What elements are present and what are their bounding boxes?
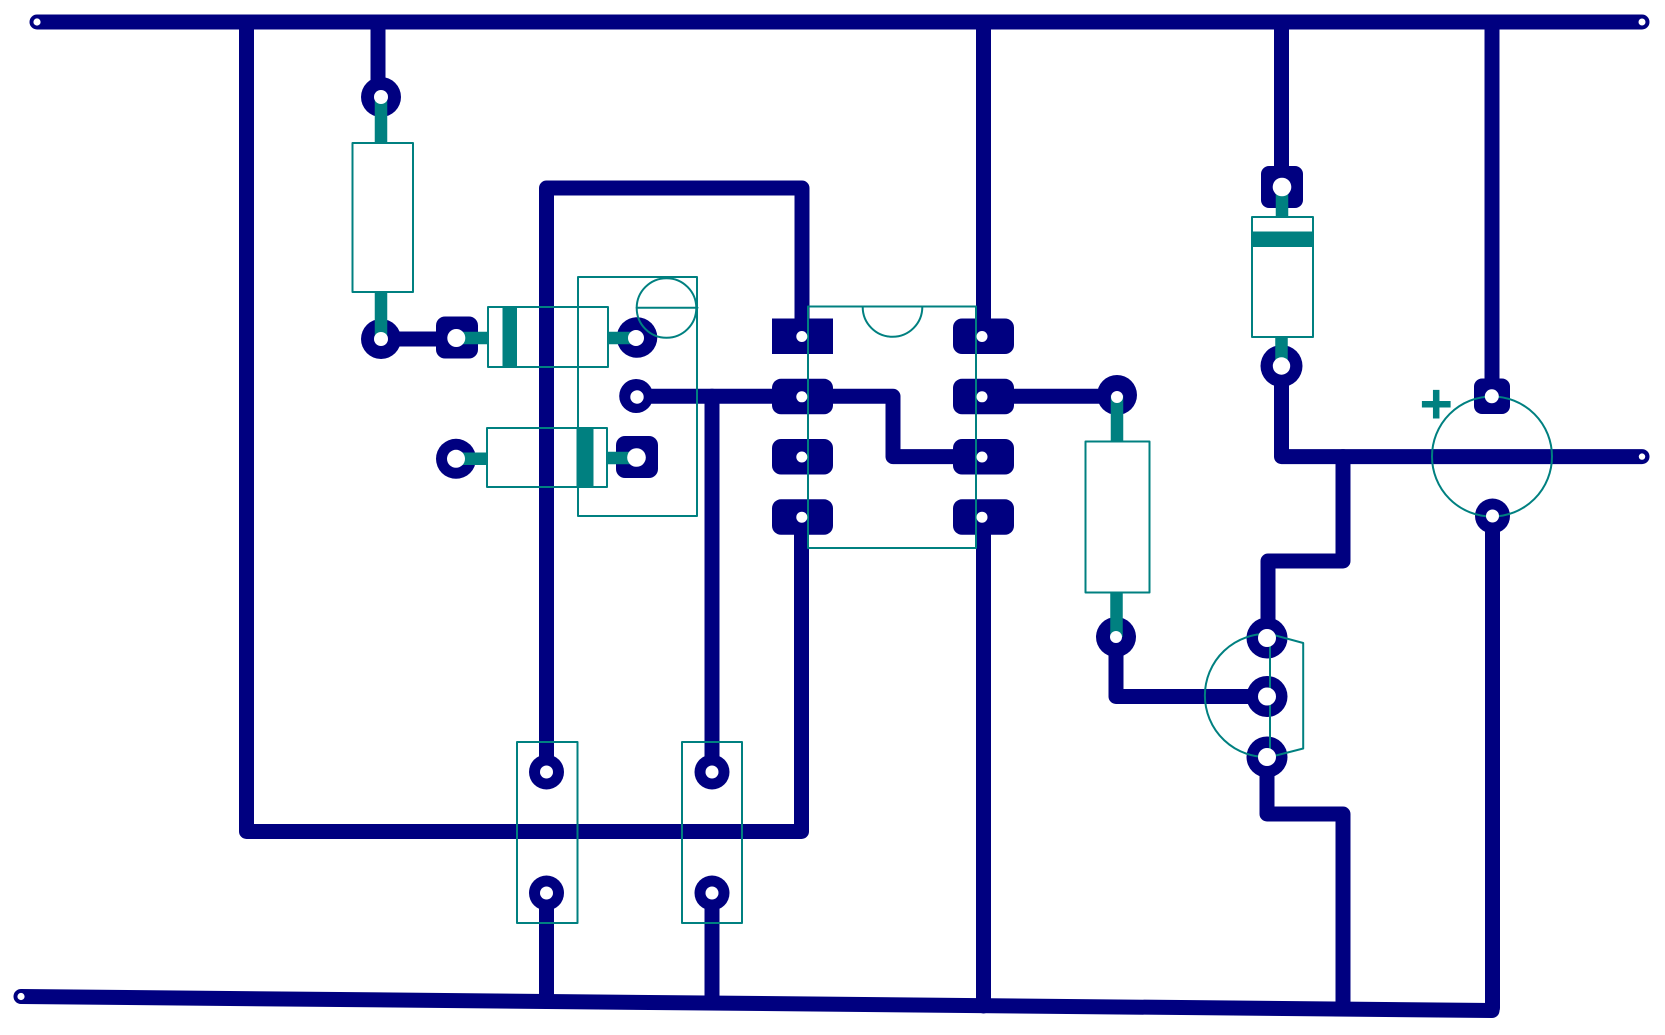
wire left branch from top rail down and along to U1 pin4 xyxy=(247,22,802,832)
drill holes D1 xyxy=(447,329,644,347)
wire J2 pin2 down to ground rail xyxy=(705,893,720,1002)
pad D1 anode (square pin1) xyxy=(436,317,478,359)
wire node at y396 down to J2 pin1 xyxy=(705,396,720,772)
net endpoint hole top-right xyxy=(1639,19,1646,26)
diode D1 lead right xyxy=(608,332,636,345)
wire top rail to R1 top pad xyxy=(371,22,386,97)
wire R1 bottom pad to D1 anode pad xyxy=(381,332,456,347)
pad J2 pin2 xyxy=(695,876,730,911)
op-amp U1 pin1 notch xyxy=(863,307,923,337)
transistor Q2 body outline xyxy=(1205,634,1303,757)
wire top rail to D3 cathode pad xyxy=(1274,22,1289,187)
motor M1 outline xyxy=(1432,397,1552,517)
wire top power rail xyxy=(37,15,1642,30)
resistor R1 lead top xyxy=(375,97,388,143)
drill holes M1 xyxy=(1485,389,1499,522)
pad motor M1 plus (square) xyxy=(1474,379,1510,415)
resistor R1 lead bottom xyxy=(375,292,388,339)
resistor R2 body xyxy=(1086,442,1150,593)
pad U1 pin6 xyxy=(953,379,1014,415)
diode D3 cathode band xyxy=(1252,232,1313,248)
diode D3 lead bottom xyxy=(1275,337,1288,366)
pad D3 cathode (square pin1) xyxy=(1261,166,1303,208)
pad Q2 collector xyxy=(1247,618,1288,659)
drill holes D3 xyxy=(1273,178,1292,375)
pad J1 pin2 xyxy=(529,876,564,911)
wire J1 pin1 up over to U1 pin1 xyxy=(547,188,803,772)
pad J2 pin1 xyxy=(695,755,730,790)
pad U1 pin3 xyxy=(772,439,833,475)
pad D3 anode xyxy=(1261,345,1303,387)
wire J1 pin2 down to ground rail xyxy=(539,893,554,1001)
wire D3 anode pad to output rail going right xyxy=(1282,366,1643,457)
drill holes D2 xyxy=(447,448,646,468)
pad R2 top xyxy=(1097,375,1137,415)
pad Q1 pin2 xyxy=(619,379,653,413)
wire Q2 emitter pad down to ground rail xyxy=(1267,757,1343,1005)
op-amp U1 outline xyxy=(808,307,976,549)
pad U1 pin4 xyxy=(772,499,833,535)
pad J1 pin1 xyxy=(529,755,564,790)
pad U1 pin8 xyxy=(953,499,1014,535)
diode D2 lead right xyxy=(607,452,636,465)
wire R2 bottom pad to Q2 base pad xyxy=(1116,637,1267,697)
pad D1 cathode / Q1 pin1 xyxy=(617,317,658,358)
wire top rail to motor M1 plus pad xyxy=(1485,22,1500,396)
connector J1 outline xyxy=(517,742,578,923)
diode D3 body xyxy=(1252,217,1313,337)
diode D2 lead left xyxy=(456,453,487,466)
drill holes J2 xyxy=(706,766,719,900)
pad Q2 base xyxy=(1247,676,1288,717)
drill holes R2 xyxy=(1110,391,1123,643)
pad motor M1 minus xyxy=(1475,499,1510,534)
pad U1 pin5 xyxy=(953,319,1014,355)
wire bottom ground rail xyxy=(21,997,1492,1011)
pad via R1 top xyxy=(361,77,401,117)
wire U1 pin6 to R2 top pad xyxy=(983,389,1117,404)
motor M1 plus sign xyxy=(1422,390,1451,419)
pad D2 cathode (square pin1) / Q1 pin3 xyxy=(616,436,658,478)
pad U1 pin1 (square) xyxy=(772,319,833,355)
wire top rail to U1 pin5 xyxy=(976,22,991,337)
transistor Q1 index line xyxy=(637,307,698,309)
pad U1 pin7 xyxy=(953,439,1014,475)
diode D3 lead top xyxy=(1276,187,1289,217)
resistor R2 lead top xyxy=(1111,395,1124,442)
pad D2 anode xyxy=(436,439,476,479)
drill holes R1 xyxy=(374,90,388,346)
wire branch from output rail down to Q2 collector pad xyxy=(1268,457,1343,638)
drill holes Q2 xyxy=(1258,629,1276,766)
diode D1 cathode band xyxy=(503,307,518,367)
pad R2 bottom xyxy=(1096,617,1136,657)
transistor Q1 index circle xyxy=(637,278,697,338)
wire Q1 middle pad to U1 pin2 and S-bend to U1 pin7 xyxy=(636,396,984,456)
diode D2 cathode band xyxy=(577,428,594,487)
transistor Q1 body outline xyxy=(578,277,697,516)
wire U1 pin8 down to ground rail xyxy=(976,517,991,1006)
diode D1 lead left xyxy=(456,332,488,345)
net endpoint hole output rail right xyxy=(1639,453,1645,459)
diode D2 body xyxy=(487,428,607,487)
drill holes U1 xyxy=(796,331,987,523)
resistor R1 body xyxy=(353,143,414,292)
connector J2 outline xyxy=(682,742,742,923)
drill holes J1 xyxy=(540,766,553,900)
drill hole Q1 pin2 xyxy=(630,390,643,403)
net endpoint hole bottom-left xyxy=(17,993,24,1000)
net endpoint hole top-left xyxy=(33,18,40,25)
diode D1 body xyxy=(488,307,608,367)
pad U1 pin2 xyxy=(772,379,833,415)
wire motor M1 minus pad down to ground rail xyxy=(1485,516,1500,1008)
pad Q2 emitter xyxy=(1247,737,1288,778)
pad via R1 bottom xyxy=(361,319,401,359)
resistor R2 lead bottom xyxy=(1110,592,1123,637)
